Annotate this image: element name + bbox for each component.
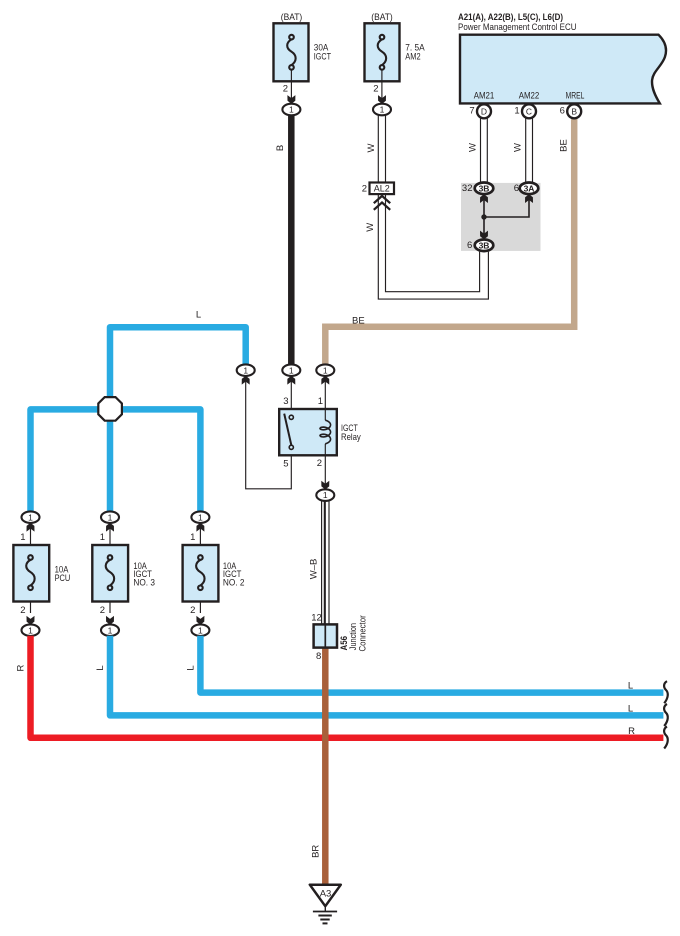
svg-text:1: 1	[323, 365, 328, 375]
svg-text:1: 1	[289, 365, 294, 375]
value label 30A IGCT	[314, 42, 331, 62]
label W-B	[309, 559, 320, 580]
svg-text:6: 6	[560, 106, 565, 117]
wire L blue from fuse IGCT NO.3 to right edge	[110, 636, 663, 716]
svg-text:3: 3	[283, 396, 288, 407]
label L right middle	[628, 704, 633, 715]
fuse F2 7.5A AM2	[365, 23, 400, 104]
wire L blue from junction to relay branch	[110, 327, 246, 512]
wire L blue horizontal to three fuses	[31, 409, 201, 511]
svg-text:Junction: Junction	[348, 623, 358, 650]
wire B thick black from fuse 30A IGCT to relay node	[288, 114, 295, 365]
node 3B lower pin 6	[467, 240, 493, 252]
svg-text:1: 1	[28, 625, 33, 635]
arrows down into nodes below lower fuses	[27, 616, 35, 625]
value label 7.5A AM2	[405, 42, 425, 62]
wire relay pin 3 to node	[290, 376, 292, 409]
node 1 above relay pin 1	[316, 364, 334, 376]
pin 2 of AL2	[362, 184, 367, 195]
nodes 1 below lower fuses	[22, 624, 40, 636]
label L rotated	[95, 665, 106, 670]
fuse F3 10A PCU	[13, 545, 49, 602]
svg-text:1: 1	[190, 532, 195, 543]
pin 12 of A56	[311, 612, 322, 623]
svg-text:C: C	[526, 106, 532, 116]
svg-text:6: 6	[467, 240, 472, 251]
wire W from fuse AM2 to connector AL2	[378, 114, 385, 183]
continuation squiggle middle L	[664, 704, 668, 726]
continuation squiggle bottom R	[664, 727, 668, 749]
label BR rotated	[310, 845, 321, 858]
svg-text:6: 6	[514, 183, 519, 194]
label A56 Junction Connector	[339, 615, 368, 651]
node 1 above relay branch (to relay pin 5)	[237, 364, 255, 376]
svg-text:3A: 3A	[524, 183, 535, 193]
svg-text:1: 1	[323, 490, 328, 500]
label BE on MREL wire vertical	[558, 139, 569, 152]
connector B pin 6	[560, 104, 582, 118]
svg-text:W: W	[513, 143, 524, 152]
ECU title	[458, 12, 577, 33]
label L rotated	[185, 665, 196, 670]
pin 2 label	[317, 458, 322, 469]
svg-text:1: 1	[100, 532, 105, 543]
wire W from AL2 down around to node 3B	[378, 194, 488, 299]
wire R red from fuse PCU to right edge	[31, 636, 664, 738]
svg-text:1: 1	[198, 512, 203, 522]
svg-text:7: 7	[469, 106, 474, 117]
svg-text:L: L	[628, 704, 633, 715]
wire W from AM21 to node 3B	[481, 118, 488, 184]
svg-text:2: 2	[100, 605, 105, 616]
svg-text:1: 1	[28, 512, 33, 522]
fuse F4 10A IGCT NO.3	[92, 545, 128, 602]
pin 8 of A56	[316, 651, 321, 662]
svg-text:L: L	[185, 665, 196, 670]
svg-text:5: 5	[283, 459, 288, 470]
wire relay pin 5 around to node	[246, 376, 292, 489]
wire from junction dot to node 3A	[484, 198, 529, 217]
svg-text:R: R	[16, 664, 27, 671]
svg-text:Connector: Connector	[358, 615, 368, 651]
wire from node 3B to junction dot and node 3B lower	[483, 197, 485, 236]
thin leads into lower fuses	[31, 523, 201, 550]
junction dot	[481, 214, 486, 219]
fuse 7.5A AM2 (BAT) label	[371, 12, 393, 23]
svg-text:AL2: AL2	[374, 184, 390, 195]
label IGCT Relay	[341, 423, 361, 443]
pin 3 label	[283, 396, 288, 407]
svg-text:(BAT): (BAT)	[281, 12, 303, 23]
wire BE from MREL to relay pin 1	[325, 117, 574, 365]
svg-text:AM2: AM2	[405, 52, 420, 63]
svg-text:2: 2	[190, 605, 195, 616]
value label 10A IGCT NO. 3	[133, 561, 155, 589]
label BE on MREL wire horizontal	[352, 316, 365, 327]
label W on AM21 wire	[467, 143, 478, 152]
arrow down into node	[287, 95, 295, 104]
label L right top	[628, 681, 633, 692]
svg-text:B: B	[275, 145, 286, 151]
wire relay pin 1 to node	[324, 376, 326, 409]
connector D pin 7	[469, 104, 491, 118]
arrow up into node above pin5	[242, 376, 250, 385]
wire W from AM22 to node 3A	[526, 118, 533, 184]
svg-text:PCU: PCU	[55, 573, 71, 584]
svg-text:32: 32	[462, 183, 473, 194]
ECU U1 Power Management Control ECU box	[460, 35, 666, 104]
pin label AM22	[519, 91, 540, 102]
svg-text:3B: 3B	[479, 240, 490, 250]
node 1 above relay pin 3	[282, 364, 300, 376]
pin 1 label	[318, 396, 323, 407]
svg-text:L: L	[628, 681, 633, 692]
svg-text:1: 1	[289, 105, 294, 115]
svg-text:D: D	[481, 106, 487, 116]
svg-text:AM21: AM21	[474, 91, 495, 102]
svg-text:BR: BR	[310, 845, 321, 858]
relay U2 IGCT Relay	[279, 409, 337, 455]
wire relay pin 2 down to node	[324, 455, 326, 489]
node 3B pin 32	[462, 183, 493, 195]
svg-text:1: 1	[514, 106, 519, 117]
svg-text:2: 2	[373, 84, 378, 95]
label W on lower segment	[365, 223, 376, 232]
arrow up into node above pin3	[287, 376, 295, 385]
value label 10A IGCT NO. 2	[223, 561, 245, 589]
svg-text:L: L	[196, 309, 201, 320]
svg-text:B: B	[571, 106, 577, 116]
pin 2 of fuse F2	[373, 84, 378, 95]
svg-text:2: 2	[20, 605, 25, 616]
svg-text:1: 1	[108, 625, 113, 635]
arrow up into node 3A	[525, 194, 533, 203]
fuse 30A IGCT (BAT) label	[281, 12, 303, 23]
value label 10A PCU	[55, 564, 71, 584]
label R rotated	[16, 664, 27, 671]
label B	[275, 145, 286, 151]
pin label MREL	[566, 91, 585, 102]
connector C pin 1	[514, 104, 536, 118]
svg-text:12: 12	[311, 612, 322, 623]
svg-text:2: 2	[362, 184, 367, 195]
svg-text:BE: BE	[558, 139, 569, 152]
node 1 below fuse F1	[282, 104, 300, 116]
node 1 below relay pin 2	[316, 489, 334, 501]
svg-text:Power Management Control ECU: Power Management Control ECU	[458, 22, 577, 33]
junction connector A56	[314, 624, 337, 647]
pin 5 label	[283, 459, 288, 470]
svg-text:2: 2	[283, 84, 288, 95]
svg-text:Relay: Relay	[341, 432, 361, 443]
svg-text:1: 1	[318, 396, 323, 407]
ground A3	[310, 885, 341, 924]
svg-text:R: R	[628, 726, 635, 737]
junction octagon	[98, 397, 122, 421]
svg-text:W: W	[365, 223, 376, 232]
svg-text:W: W	[467, 143, 478, 152]
arrow down into lower node 3B	[480, 231, 488, 240]
fuse F5 10A IGCT NO.2	[183, 545, 219, 602]
continuation squiggle top L	[664, 681, 668, 703]
svg-text:1: 1	[108, 512, 113, 522]
arrow down into node	[378, 95, 386, 104]
svg-text:NO. 2: NO. 2	[223, 578, 245, 589]
junction block shaded area	[461, 183, 541, 251]
nodes 1 above lower fuses	[22, 511, 40, 523]
svg-text:3B: 3B	[479, 183, 490, 193]
node 1 below fuse F2	[373, 104, 391, 116]
wire L blue from fuse IGCT NO.2 to right edge	[200, 636, 663, 693]
node 3A pin 6	[514, 183, 539, 195]
arrow up into node 3B	[480, 194, 488, 203]
fuse F1 30A IGCT	[274, 23, 309, 104]
svg-text:BE: BE	[352, 316, 365, 327]
svg-text:IGCT: IGCT	[314, 52, 331, 63]
arrows up into nodes above lower fuses	[27, 523, 35, 532]
svg-text:8: 8	[316, 651, 321, 662]
svg-text:2: 2	[317, 458, 322, 469]
arrow up into node above pin1	[321, 376, 329, 385]
label L top	[196, 309, 201, 320]
pin 2 of fuse F1	[283, 84, 288, 95]
arrow down into node below pin 2	[321, 481, 329, 490]
wire BR brown from A56 to ground A3	[322, 645, 329, 885]
svg-text:W: W	[366, 143, 377, 152]
label W	[366, 143, 377, 152]
wire W-B from relay node to junction connector A56	[322, 501, 329, 625]
svg-text:(BAT): (BAT)	[371, 12, 393, 23]
connector AL2	[370, 183, 395, 195]
svg-text:1: 1	[380, 105, 385, 115]
label W on AM22 wire	[513, 143, 524, 152]
svg-text:A3: A3	[320, 889, 332, 900]
svg-text:L: L	[95, 665, 106, 670]
svg-text:W–B: W–B	[309, 559, 320, 580]
svg-text:NO. 3: NO. 3	[133, 578, 155, 589]
pin label AM21	[474, 91, 495, 102]
svg-text:1: 1	[198, 625, 203, 635]
svg-text:1: 1	[243, 365, 248, 375]
svg-text:MREL: MREL	[566, 91, 585, 102]
pin 2 labels below lower fuses	[20, 605, 25, 616]
pin 1 labels above lower fuses	[20, 532, 25, 543]
svg-text:1: 1	[20, 532, 25, 543]
shield chevrons below AL2	[374, 196, 390, 210]
svg-text:AM22: AM22	[519, 91, 540, 102]
label R right bottom	[628, 726, 635, 737]
